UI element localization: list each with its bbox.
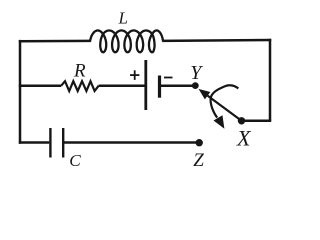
node Z dot: [196, 139, 203, 146]
node Y dot: [192, 82, 199, 89]
capacitor plate right: [62, 128, 64, 158]
capacitor plate left: [49, 128, 51, 158]
switch swing arc: [211, 85, 239, 117]
wire: bottom from left rail to capacitor: [19, 141, 50, 144]
resistor R zigzag: [61, 81, 98, 91]
wire: battery to node Y: [160, 84, 196, 87]
battery - sign: [164, 77, 173, 79]
battery short plate -: [158, 76, 161, 98]
wire: right rail: [269, 39, 272, 121]
wire: resistor to battery: [99, 84, 145, 87]
svg-text:X: X: [236, 126, 252, 151]
svg-text:C: C: [69, 151, 81, 170]
swing arc arrowhead: [215, 116, 224, 127]
svg-text:Z: Z: [193, 150, 204, 171]
svg-text:L: L: [118, 8, 128, 27]
switch lever arrowhead at Y: [200, 90, 210, 99]
wire: top right segment: [162, 39, 271, 42]
wire: left rail: [19, 40, 22, 144]
switch lever from X toward Y: [208, 96, 242, 121]
node X dot: [238, 117, 245, 124]
wire: top left segment: [19, 40, 91, 43]
svg-text:R: R: [73, 60, 86, 81]
wire: mid branch from left rail to resistor: [19, 84, 62, 87]
wire: capacitor to node Z: [63, 141, 199, 144]
svg-text:Y: Y: [190, 62, 203, 84]
battery + sign: [130, 70, 139, 80]
wire: X node to right rail: [242, 120, 272, 123]
inductor L coil: [90, 30, 163, 52]
battery long plate +: [144, 60, 147, 110]
